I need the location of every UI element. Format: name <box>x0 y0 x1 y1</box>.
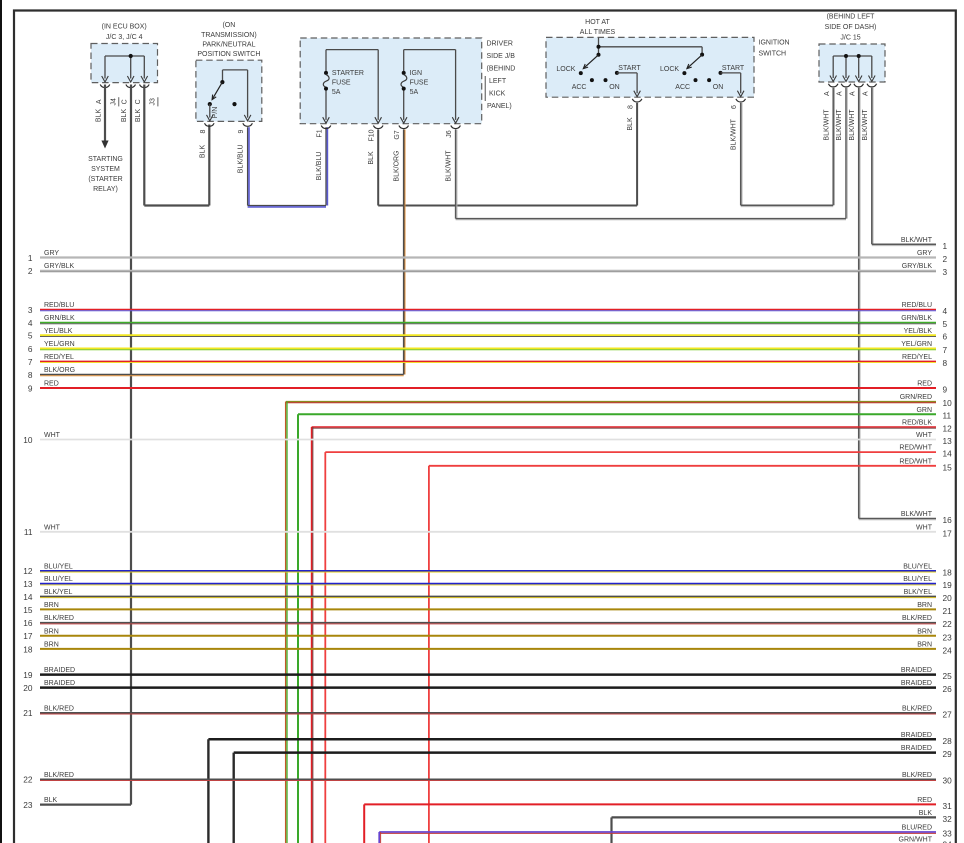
svg-text:BRN: BRN <box>44 628 59 635</box>
svg-text:BLK: BLK <box>199 145 206 159</box>
J/C15 bus node 1 <box>844 54 848 58</box>
driver side J/B box <box>300 38 482 124</box>
svg-text:5: 5 <box>28 331 33 341</box>
wire riser GRN/RED <box>285 402 287 843</box>
svg-text:BLK: BLK <box>44 797 58 804</box>
svg-text:J/C 3, J/C 4: J/C 3, J/C 4 <box>106 34 143 41</box>
feed junction node <box>597 45 601 49</box>
svg-text:START: START <box>722 65 745 72</box>
svg-text:STARTER: STARTER <box>332 70 364 77</box>
svg-text:22: 22 <box>943 619 953 629</box>
ignition feed wire <box>598 37 600 54</box>
wire row GRN right 11 <box>298 413 936 415</box>
svg-text:BLK: BLK <box>919 810 933 817</box>
svg-text:ACC: ACC <box>572 84 587 91</box>
park/neutral position switch box <box>196 60 262 121</box>
svg-text:8: 8 <box>943 358 948 368</box>
P/N switch common node <box>220 80 224 84</box>
svg-text:RED/BLU: RED/BLU <box>902 302 932 309</box>
svg-text:33: 33 <box>943 829 953 839</box>
svg-text:BLU/YEL: BLU/YEL <box>44 563 73 570</box>
svg-text:20: 20 <box>23 683 33 693</box>
wire row GRN/RED right 10 <box>286 401 936 403</box>
svg-text:BLK: BLK <box>96 109 103 123</box>
svg-text:16: 16 <box>23 618 33 628</box>
svg-text:F10: F10 <box>369 129 376 141</box>
ECU pin C connector collar <box>126 85 136 88</box>
wire BLK/WHT A4 down <box>871 88 873 245</box>
svg-text:10: 10 <box>23 435 33 445</box>
P/N contact node <box>208 102 212 106</box>
svg-text:16: 16 <box>943 515 953 525</box>
svg-text:3: 3 <box>28 305 33 315</box>
svg-text:BLK: BLK <box>135 109 142 123</box>
wire BLK to starter relay <box>104 85 106 142</box>
svg-text:FUSE: FUSE <box>332 80 351 87</box>
svg-text:19: 19 <box>23 670 33 680</box>
svg-text:5A: 5A <box>410 89 419 96</box>
svg-text:J3: J3 <box>149 98 156 106</box>
svg-text:GRN/WHT: GRN/WHT <box>899 837 933 843</box>
wire row RED/YEL 7-8 <box>40 360 936 362</box>
wire BLK run F10 to ignition pin8 <box>378 205 637 207</box>
svg-text:DRIVER: DRIVER <box>487 41 513 48</box>
svg-text:F1: F1 <box>316 129 323 137</box>
svg-text:LEFT: LEFT <box>489 78 507 85</box>
svg-text:14: 14 <box>943 449 953 459</box>
P/N switch internal wire <box>223 69 248 71</box>
wire BLK elbow to P/N switch <box>144 204 209 206</box>
svg-text:(STARTER: (STARTER <box>88 176 122 183</box>
P/N switch lever <box>212 82 222 100</box>
ign pin 8 collar <box>632 99 642 102</box>
svg-text:GRY/BLK: GRY/BLK <box>44 263 75 270</box>
svg-text:28: 28 <box>943 736 953 746</box>
svg-text:BLK: BLK <box>121 109 128 123</box>
svg-text:(BEHIND LEFT: (BEHIND LEFT <box>827 14 876 21</box>
svg-text:BRAIDED: BRAIDED <box>901 732 932 739</box>
svg-text:GRN: GRN <box>916 407 932 414</box>
wire row BRN 15-21 <box>40 608 936 610</box>
svg-text:4: 4 <box>943 306 948 316</box>
J/B pin F10 collar <box>373 126 383 129</box>
svg-text:GRY: GRY <box>917 250 932 257</box>
wire row RED/WHT right 15 <box>429 465 936 467</box>
svg-text:9: 9 <box>943 385 948 395</box>
svg-text:3: 3 <box>943 267 948 277</box>
wire row YEL/GRN 6-7 <box>40 347 936 349</box>
svg-text:C: C <box>135 99 142 104</box>
wire BLK from ECU C2 down <box>143 85 145 206</box>
svg-text:GRY: GRY <box>44 250 59 257</box>
wire row BLU/YEL 12-18 <box>40 570 936 572</box>
svg-text:RED/YEL: RED/YEL <box>44 354 74 361</box>
wire row BLK left 23 <box>40 803 131 805</box>
svg-text:LOCK: LOCK <box>556 66 575 73</box>
J/B pin F1 collar <box>321 126 331 129</box>
P/N open contact node <box>232 102 236 106</box>
svg-text:BLK/RED: BLK/RED <box>44 772 74 779</box>
svg-text:BLK/BLU: BLK/BLU <box>238 144 245 173</box>
ECU pin C2 arrow <box>141 76 148 82</box>
wire riser BLU/RED 33 <box>378 832 380 843</box>
svg-text:BRAIDED: BRAIDED <box>901 745 932 752</box>
svg-text:8: 8 <box>28 370 33 380</box>
svg-text:IGN: IGN <box>410 70 422 77</box>
svg-text:J/C 15: J/C 15 <box>840 35 860 42</box>
svg-text:BLU/YEL: BLU/YEL <box>903 563 932 570</box>
svg-text:BRN: BRN <box>917 602 932 609</box>
svg-text:12: 12 <box>23 566 33 576</box>
svg-text:A: A <box>849 91 856 96</box>
svg-text:A: A <box>824 91 831 96</box>
svg-text:GRN/RED: GRN/RED <box>900 394 932 401</box>
wire riser RED 31 <box>363 804 365 843</box>
switch2 pivot node <box>700 53 704 57</box>
svg-text:31: 31 <box>943 801 953 811</box>
wire BLK/WHT run J6 to J/C15 A2 <box>456 218 846 220</box>
svg-text:BLK/RED: BLK/RED <box>902 772 932 779</box>
svg-text:RED/BLK: RED/BLK <box>902 420 932 427</box>
svg-text:BRN: BRN <box>44 602 59 609</box>
ECU pin C2 connector collar <box>140 85 150 88</box>
wire row BLK/ORG 8 <box>40 374 404 376</box>
wire riser RED/BLK <box>311 427 313 843</box>
svg-text:BLK/RED: BLK/RED <box>44 615 74 622</box>
svg-text:6: 6 <box>943 332 948 342</box>
J/B pin F1 arrow <box>323 117 330 123</box>
svg-text:PARK/NEUTRAL: PARK/NEUTRAL <box>202 41 255 48</box>
svg-text:5: 5 <box>943 319 948 329</box>
svg-text:J6: J6 <box>446 130 453 138</box>
ECU pin A arrow <box>102 76 109 82</box>
svg-text:BLK: BLK <box>368 151 375 165</box>
wire BLK ign pin8 down <box>636 103 638 206</box>
svg-text:A: A <box>96 99 103 104</box>
svg-text:13: 13 <box>23 579 33 589</box>
ign pin 6 collar <box>736 99 746 102</box>
svg-text:7: 7 <box>28 357 33 367</box>
svg-text:6: 6 <box>731 105 738 109</box>
svg-text:15: 15 <box>23 605 33 615</box>
svg-text:BLK/WHT: BLK/WHT <box>836 109 843 141</box>
wire BLK/WHT from J6 down <box>455 130 457 219</box>
svg-text:6: 6 <box>28 344 33 354</box>
junction block J/C15 box <box>819 44 885 82</box>
svg-text:BLK/WHT: BLK/WHT <box>849 109 856 141</box>
svg-text:BLK/WHT: BLK/WHT <box>901 511 933 518</box>
svg-text:ON: ON <box>609 84 620 91</box>
svg-text:10: 10 <box>943 398 953 408</box>
P/N pin 9 collar <box>243 123 253 126</box>
wire row BRAIDED 20-26 <box>40 686 936 689</box>
svg-text:11: 11 <box>24 527 33 537</box>
svg-text:BLU/YEL: BLU/YEL <box>903 576 932 583</box>
svg-text:RED: RED <box>917 381 932 388</box>
svg-text:RED/WHT: RED/WHT <box>899 445 932 452</box>
svg-text:POSITION SWITCH: POSITION SWITCH <box>197 51 260 58</box>
svg-text:15: 15 <box>943 462 953 472</box>
svg-text:BLK/RED: BLK/RED <box>44 705 74 712</box>
wire row BRN 18-24 <box>40 648 936 650</box>
ECU pin C arrow <box>127 76 134 82</box>
wire BLK/WHT A2 down <box>845 88 847 219</box>
P/N pin 8 collar <box>205 123 215 126</box>
svg-text:7: 7 <box>943 345 948 355</box>
P/N pin 8 arrow <box>207 115 214 121</box>
svg-text:BLK/WHT: BLK/WHT <box>862 109 869 141</box>
wire row YEL/BLK 5-6 <box>40 334 936 336</box>
wire row BLK right 32 <box>612 816 937 818</box>
ECU bus junction node <box>129 54 133 58</box>
svg-text:5A: 5A <box>332 89 341 96</box>
svg-text:17: 17 <box>943 528 953 538</box>
svg-text:START: START <box>618 65 641 72</box>
svg-text:(ON: (ON <box>222 22 235 29</box>
svg-text:13: 13 <box>943 436 953 446</box>
svg-text:BLK/YEL: BLK/YEL <box>904 589 933 596</box>
J/B pin J6 arrow <box>452 117 459 123</box>
wire row BRAIDED 19-25 <box>40 673 936 676</box>
svg-text:YEL/BLK: YEL/BLK <box>904 328 933 335</box>
svg-text:BLU/YEL: BLU/YEL <box>44 576 73 583</box>
svg-text:1: 1 <box>943 241 948 251</box>
svg-text:STARTING: STARTING <box>88 156 123 163</box>
svg-text:BLK/RED: BLK/RED <box>902 705 932 712</box>
wire row BLK/WHT right 1 <box>872 243 936 245</box>
wire row BLK/RED 22-30 <box>40 778 936 780</box>
svg-text:20: 20 <box>943 593 953 603</box>
wire row GRY 1-2 <box>40 256 936 258</box>
svg-text:GRN/BLK: GRN/BLK <box>901 315 932 322</box>
wire BLK from F10 down <box>377 130 379 206</box>
svg-text:22: 22 <box>23 775 33 785</box>
wire inside P/N to pin 8 <box>209 104 211 118</box>
svg-text:RED: RED <box>917 797 932 804</box>
svg-text:YEL/GRN: YEL/GRN <box>44 341 75 348</box>
page left edge line <box>0 0 2 843</box>
ECU box internal bus wire <box>105 55 144 57</box>
wire row RED/BLK right 12 <box>312 426 936 428</box>
svg-text:BLK/ORG: BLK/ORG <box>394 150 401 181</box>
svg-text:BRN: BRN <box>917 642 932 649</box>
svg-text:P/N: P/N <box>212 107 219 119</box>
ignition switch box <box>546 37 754 97</box>
J/C15 internal bus <box>833 55 872 57</box>
wire row BLK/YEL 14-20 <box>40 595 936 597</box>
svg-text:BLK/WHT: BLK/WHT <box>901 237 933 244</box>
svg-text:BRAIDED: BRAIDED <box>901 680 932 687</box>
svg-text:26: 26 <box>943 684 953 694</box>
svg-text:BRAIDED: BRAIDED <box>44 680 75 687</box>
ECU pin A connector collar <box>100 85 110 88</box>
wire BLK/WHT run pin6 to J/C15 A1 <box>741 204 834 206</box>
svg-text:1: 1 <box>28 253 33 263</box>
svg-text:BRAIDED: BRAIDED <box>44 667 75 674</box>
ignition switch section 1 <box>583 55 598 69</box>
wire riser BLK 29 <box>232 753 234 843</box>
svg-text:WHT: WHT <box>916 432 933 439</box>
svg-text:8: 8 <box>200 129 207 133</box>
wire row BLK/RED 21-27 <box>40 712 936 714</box>
wire BLK/ORG from G7 to row 8 <box>403 130 405 375</box>
svg-text:J4: J4 <box>110 98 117 106</box>
svg-text:23: 23 <box>23 800 33 810</box>
svg-text:24: 24 <box>943 645 953 655</box>
wire row BLK/RED 16-22 <box>40 622 936 624</box>
svg-text:WHT: WHT <box>44 432 61 439</box>
svg-text:KICK: KICK <box>489 91 506 98</box>
wire BLK/BLU up to F1 <box>325 127 327 205</box>
svg-text:2: 2 <box>28 266 33 276</box>
svg-text:WHT: WHT <box>44 524 61 531</box>
wire BLK/WHT A3 down to row16 <box>858 88 860 519</box>
wire row RED right 31 <box>364 803 936 805</box>
wire row BLK/WHT right 16 <box>859 518 936 520</box>
svg-text:SWITCH: SWITCH <box>759 50 787 57</box>
svg-text:BLK/ORG: BLK/ORG <box>44 367 75 374</box>
P/N pin 9 arrow <box>244 115 251 121</box>
svg-text:WHT: WHT <box>916 524 933 531</box>
svg-text:RED/YEL: RED/YEL <box>902 354 932 361</box>
svg-text:12: 12 <box>943 424 953 434</box>
wire row BLU/RED right 33 <box>379 831 936 833</box>
svg-text:YEL/GRN: YEL/GRN <box>901 341 932 348</box>
svg-text:RED/WHT: RED/WHT <box>899 458 932 465</box>
wire row GRY/BLK 2-3 <box>40 270 936 272</box>
svg-text:A: A <box>837 91 844 96</box>
svg-text:18: 18 <box>23 644 33 654</box>
svg-text:ACC: ACC <box>675 84 690 91</box>
svg-text:4: 4 <box>28 318 33 328</box>
svg-text:23: 23 <box>943 632 953 642</box>
svg-text:YEL/BLK: YEL/BLK <box>44 328 73 335</box>
wire row RED/WHT right 14 <box>325 451 936 453</box>
svg-text:BRAIDED: BRAIDED <box>901 667 932 674</box>
svg-text:IGNITION: IGNITION <box>759 39 790 46</box>
wire row BLU/YEL 13-19 <box>40 583 936 585</box>
J/B pin G7 collar <box>399 126 409 129</box>
svg-text:HOT AT: HOT AT <box>585 19 610 26</box>
wire row RED 9-9 <box>40 387 936 389</box>
svg-text:BRN: BRN <box>917 628 932 635</box>
svg-text:2: 2 <box>943 254 948 264</box>
wire riser BLK 32 <box>610 817 612 843</box>
svg-text:9: 9 <box>28 383 33 393</box>
svg-text:(IN ECU BOX): (IN ECU BOX) <box>102 24 147 31</box>
wire row RED/BLU 3-4 <box>40 309 936 311</box>
svg-text:SIDE J/B: SIDE J/B <box>487 53 516 60</box>
svg-text:30: 30 <box>943 776 953 786</box>
ignition switch section 2 <box>687 55 702 69</box>
wire row BRAIDED right 29 <box>234 751 936 754</box>
ign fuse circuit wire <box>404 49 456 51</box>
svg-text:BLK/WHT: BLK/WHT <box>445 150 452 182</box>
svg-text:18: 18 <box>943 567 953 577</box>
wire row BRAIDED right 28 <box>208 738 936 741</box>
starter relay arrowhead <box>101 141 108 149</box>
svg-text:27: 27 <box>943 709 953 719</box>
svg-text:32: 32 <box>943 814 953 824</box>
svg-text:BLK/RED: BLK/RED <box>902 615 932 622</box>
J/B paren mark <box>484 76 486 101</box>
svg-text:17: 17 <box>23 631 33 641</box>
svg-text:SYSTEM: SYSTEM <box>91 166 120 173</box>
svg-text:BLU/RED: BLU/RED <box>902 825 932 832</box>
J/B pin J6 collar <box>451 126 461 129</box>
svg-text:C: C <box>122 99 129 104</box>
svg-text:G7: G7 <box>394 130 401 139</box>
svg-text:GRY/BLK: GRY/BLK <box>902 263 933 270</box>
svg-text:LOCK: LOCK <box>660 66 679 73</box>
svg-text:GRN/BLK: GRN/BLK <box>44 315 75 322</box>
svg-text:19: 19 <box>943 580 953 590</box>
wire riser BLK 28 <box>207 739 209 843</box>
svg-text:ON: ON <box>713 84 724 91</box>
wire BLK/WHT ign pin6 down <box>740 103 742 205</box>
svg-text:BLK/YEL: BLK/YEL <box>44 589 73 596</box>
wire BLK/BLU elbow to J/B F1 <box>248 205 326 207</box>
ign fuse element <box>402 71 406 75</box>
svg-text:SIDE OF DASH): SIDE OF DASH) <box>825 24 877 31</box>
svg-text:FUSE: FUSE <box>410 80 429 87</box>
wire row BRN 17-23 <box>40 635 936 637</box>
wire riser RED/WHT 15 <box>428 466 430 843</box>
svg-text:RED/BLU: RED/BLU <box>44 302 74 309</box>
svg-text:BLK: BLK <box>627 117 634 131</box>
wire row WHT 11-17 <box>40 531 936 533</box>
svg-text:TRANSMISSION): TRANSMISSION) <box>201 32 257 39</box>
svg-text:14: 14 <box>23 592 33 602</box>
svg-text:21: 21 <box>943 606 953 616</box>
wire BLK long vertical from ECU C <box>130 85 132 805</box>
junction block J/C3 J/C4 box (IN ECU BOX) <box>91 44 158 83</box>
wire riser RED/WHT 14 <box>324 452 326 843</box>
svg-text:ALL TIMES: ALL TIMES <box>580 29 616 36</box>
svg-text:BLK/BLU: BLK/BLU <box>316 152 323 181</box>
J/B pin F10 arrow <box>375 117 382 123</box>
wire BLK/BLU from P/N pin 9 <box>247 127 249 205</box>
J/B pin G7 arrow <box>400 117 407 123</box>
J/C15 collars <box>828 84 838 87</box>
svg-text:BLK/WHT: BLK/WHT <box>731 118 738 150</box>
svg-text:A: A <box>862 91 869 96</box>
svg-text:(BEHIND: (BEHIND <box>487 66 516 73</box>
switch1 pivot node <box>597 53 601 57</box>
svg-text:RELAY): RELAY) <box>93 186 118 193</box>
svg-text:BLK/WHT: BLK/WHT <box>823 109 830 141</box>
svg-text:25: 25 <box>943 671 953 681</box>
starter fuse circuit wire <box>326 49 378 51</box>
svg-text:11: 11 <box>943 411 952 421</box>
svg-text:21: 21 <box>23 708 33 718</box>
wire BLK/WHT A1 down <box>832 88 834 206</box>
J/C15 bus node 2 <box>857 54 861 58</box>
svg-text:29: 29 <box>943 749 953 759</box>
wire row WHT 10-13 <box>40 439 936 441</box>
svg-text:BRN: BRN <box>44 642 59 649</box>
J/C15 pin arrows <box>830 76 837 82</box>
svg-text:8: 8 <box>628 105 635 109</box>
wire riser GRN <box>297 414 299 843</box>
svg-text:PANEL): PANEL) <box>487 103 512 110</box>
svg-text:RED: RED <box>44 381 59 388</box>
starter fuse F1 element <box>324 71 328 75</box>
svg-text:9: 9 <box>238 129 245 133</box>
wire row GRN/BLK 4-5 <box>40 322 936 324</box>
